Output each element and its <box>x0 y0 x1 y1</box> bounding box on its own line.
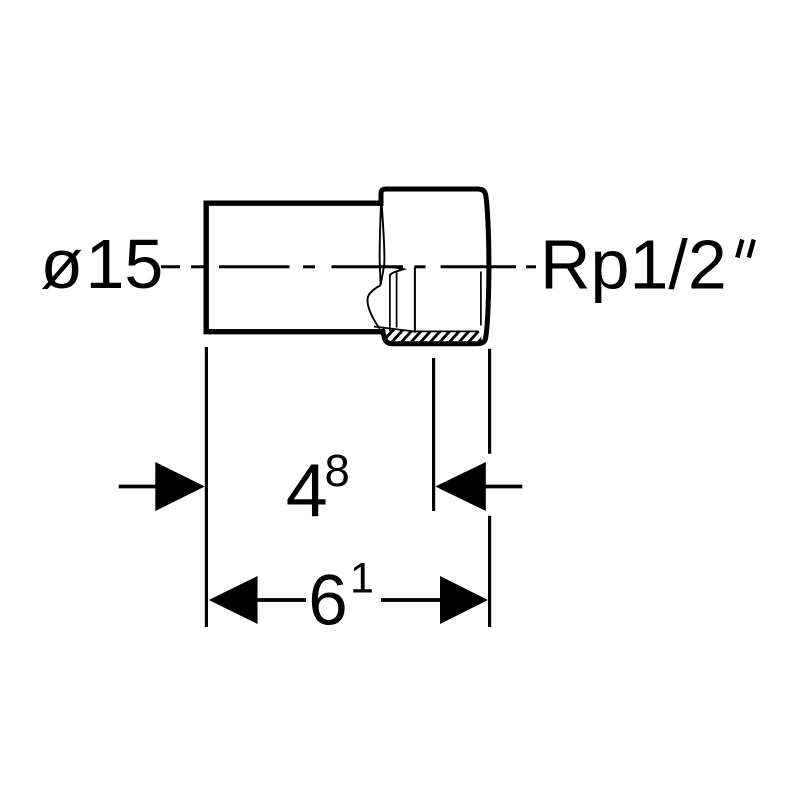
bore far-right vertical line <box>480 272 482 326</box>
label inch tick 2 <box>749 240 754 258</box>
dimension 6^1 left arrow <box>209 576 258 624</box>
centre line (dash-dot) <box>161 265 536 268</box>
thread end vertical line <box>414 267 416 333</box>
svg-text:4: 4 <box>286 448 328 532</box>
svg-text:1: 1 <box>350 555 374 603</box>
svg-text:Rp1/2: Rp1/2 <box>540 225 727 303</box>
dimension 4^8 right arrow <box>435 462 486 511</box>
dimension 4^8 right tail <box>486 485 523 489</box>
svg-text:6: 6 <box>308 562 348 641</box>
internal thread hatch <box>370 329 500 345</box>
svg-text:15: 15 <box>86 225 164 303</box>
extension line left (pipe end plane) <box>205 347 208 627</box>
socket body outline (Rp 1/2 sleeve) <box>381 189 489 344</box>
dimension 4^8 left arrow <box>155 462 205 511</box>
freehand break line: blade sliver <box>380 205 385 286</box>
dimension 6^1 right arrow <box>440 576 488 624</box>
pipe body outline (plain end) <box>206 203 384 332</box>
freehand break line: thread beak <box>384 266 404 277</box>
freehand break line: lower wave <box>367 285 380 329</box>
thread bore edge line (left pair, line 2) <box>396 273 398 328</box>
svg-text:8: 8 <box>325 445 350 496</box>
extension line right upper segment <box>488 349 491 454</box>
dimension 6^1 right tail <box>381 598 441 602</box>
dimension 4^8 left tail <box>119 485 156 489</box>
bore bottom boundary line <box>374 327 479 332</box>
extension line right lower segment <box>488 516 491 627</box>
extension line middle (insertion depth plane) <box>432 358 435 511</box>
label inch tick 1 <box>737 240 742 258</box>
svg-text:ø: ø <box>40 225 83 303</box>
thread bore edge line (left pair, line 1) <box>389 274 391 331</box>
dimension 6^1 left tail <box>257 598 306 602</box>
